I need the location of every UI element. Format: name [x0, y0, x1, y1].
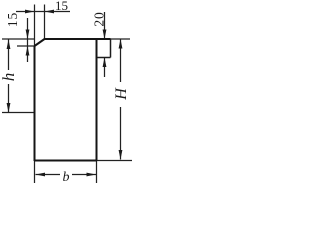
wire: h dimension line upper segment — [8, 40, 10, 71]
body outline: chamfer top-left — [35, 39, 45, 46]
arrow: left 15 dim down arrow (tip y=39) — [26, 30, 30, 40]
svg-text:15: 15 — [5, 12, 20, 27]
arrow: h top up arrow (tip y=39.5) — [7, 40, 11, 50]
wire: right edge extension below (for b) — [96, 161, 98, 184]
arrow: left 15 dim up arrow (tip y=46) — [26, 46, 30, 56]
arrow: h bottom down arrow (tip y=112.5) — [7, 103, 11, 113]
wire: top dimension line (15 horizontal) — [16, 11, 70, 13]
wire: left vertical dimension line (15 vertical) — [27, 18, 29, 62]
wire: top edge extension to the right — [111, 38, 131, 40]
svg-text:15: 15 — [55, 0, 68, 13]
wire: left edge extension below (for b) — [34, 161, 36, 184]
arrow: H top up arrow (tip y=39) — [119, 39, 123, 49]
body outline: left edge — [34, 46, 36, 162]
wire: b dimension line right segment — [72, 174, 96, 176]
wire: 20 dimension line lower segment — [104, 58, 106, 78]
svg-text:20: 20 — [92, 11, 107, 26]
wire: H dimension line upper segment — [120, 39, 122, 82]
node B: extension line from chamfer top point up — [44, 5, 46, 40]
svg-text:b: b — [63, 170, 70, 185]
wire: chamfer bottom extension line to the left — [17, 45, 35, 47]
node A: extension line from body left edge up — [34, 5, 36, 47]
svg-text:H: H — [113, 87, 130, 101]
arrow: top dim right (points left at x=44.5) — [45, 10, 55, 14]
arrow: top dim left (points right at x=34.5) — [25, 10, 35, 14]
wire: h bottom extension line — [2, 112, 35, 114]
arrow: 20 dim down arrow (tip y=39) — [103, 30, 107, 40]
wire: bottom edge extension to the right — [97, 160, 133, 162]
wire: b dimension line left segment — [36, 174, 61, 176]
body outline: top edge — [44, 38, 111, 40]
svg-text:h: h — [0, 73, 18, 82]
node C: top-right box right edge — [110, 39, 112, 58]
wire: top edge extension to the left — [2, 38, 35, 40]
wire: 20 dimension line upper segment — [104, 12, 106, 39]
body outline: bottom edge — [34, 160, 97, 162]
arrow: b right arrow (tip x=96) — [87, 173, 97, 177]
arrow: H bottom down arrow (tip y=159.5) — [119, 150, 123, 160]
wire: H dimension line lower segment — [120, 107, 122, 160]
wire: h dimension line lower segment — [8, 84, 10, 112]
body outline: right edge — [96, 39, 98, 162]
node D: top-right box bottom edge — [97, 57, 111, 59]
arrow: 20 dim up arrow (tip y=57.5) — [103, 58, 107, 68]
arrow: b left arrow (tip x=35.5) — [36, 173, 46, 177]
